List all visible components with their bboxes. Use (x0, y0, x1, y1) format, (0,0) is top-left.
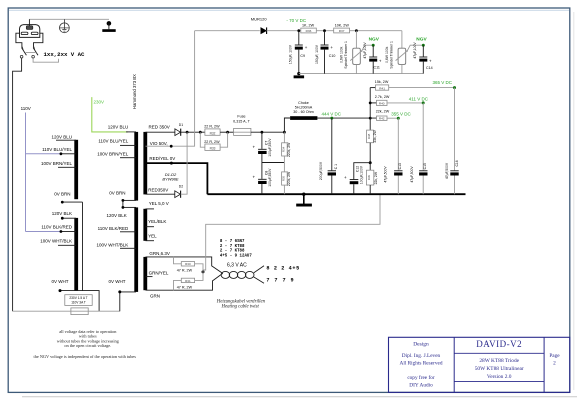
node NGV2 (422, 44, 425, 47)
node 355V (397, 117, 400, 120)
svg-text:50W KT88 Ultralinear: 50W KT88 Ultralinear (475, 366, 524, 372)
earth circle symbol (60, 19, 70, 32)
wire: mains live down left side (13, 58, 22, 311)
svg-text:365 V DC: 365 V DC (433, 80, 453, 85)
svg-text:Heizungskabel verdrillen: Heizungskabel verdrillen (216, 299, 266, 304)
svg-text:DAVID-V2: DAVID-V2 (476, 339, 522, 349)
svg-text:Choke: Choke (298, 101, 309, 105)
svg-text:Design: Design (413, 342, 429, 348)
capacitor C7 100uF 350V (253, 132, 273, 162)
svg-text:355 V DC: 355 V DC (391, 111, 411, 116)
svg-text:GRN: GRN (150, 293, 160, 298)
junction node (61, 217, 64, 220)
svg-text:C 1: C 1 (334, 164, 338, 169)
tap 120V BLU (126, 131, 136, 133)
junction node (297, 29, 300, 32)
diode D2 (175, 185, 183, 198)
choke L1 5H 200mA (290, 101, 317, 120)
svg-text:+: + (330, 45, 333, 50)
svg-text:0V WHT: 0V WHT (51, 279, 68, 284)
svg-text:GRN,6.3V: GRN,6.3V (149, 251, 170, 256)
svg-text:33k, 2W: 33k, 2W (373, 129, 377, 142)
ground symbol on bus (296, 193, 312, 207)
diode D3 MUR120 (251, 17, 301, 34)
svg-text:R42: R42 (379, 117, 385, 121)
switch S1 pole B (32, 47, 38, 59)
junction node (118, 290, 121, 293)
svg-text:Hammond 373 BX: Hammond 373 BX (132, 74, 137, 109)
label pointer bracket (33, 58, 58, 62)
tap 100V BRN/YEL (120, 157, 136, 159)
svg-text:C13: C13 (398, 163, 402, 169)
svg-text:R36: R36 (306, 29, 312, 33)
wire D2 cathode join to D1 (181, 132, 188, 194)
svg-text:R31: R31 (185, 279, 191, 283)
bias section bottom bus (299, 73, 424, 75)
svg-text:RED 350V: RED 350V (149, 124, 170, 129)
wire heater center to ground bus (203, 194, 380, 272)
wire B+ rail (317, 117, 376, 119)
svg-text:120V BLU: 120V BLU (108, 124, 129, 129)
svg-text:22k, 2W: 22k, 2W (376, 110, 390, 114)
tap 0V BRN (62, 201, 82, 203)
tube pin table (220, 240, 252, 258)
junction node (170, 162, 173, 165)
svg-text:VIO 50V,: VIO 50V, (150, 141, 168, 146)
tap 120V BLK (123, 206, 136, 208)
wire C7/C8 midpoint (262, 162, 285, 164)
capacitor C10 150uF 100V (315, 31, 335, 74)
svg-text:copy free for: copy free for (407, 374, 435, 381)
tap 110V BLK/RED (61, 231, 76, 233)
svg-text:230V 1.5 A T: 230V 1.5 A T (69, 296, 87, 300)
svg-text:47µF,100V: 47µF,100V (363, 42, 367, 59)
svg-text:YEL 5,0 V: YEL 5,0 V (149, 201, 169, 206)
svg-text:All Rights Reserved: All Rights Reserved (400, 360, 443, 366)
junction node (355, 29, 358, 32)
svg-text:GRN/YEL: GRN/YEL (149, 270, 169, 275)
svg-text:DIY Audio: DIY Audio (409, 382, 433, 388)
svg-text:1K, 2W: 1K, 2W (302, 23, 315, 27)
resistor R39 22k 2W (366, 163, 378, 195)
wire R32 to fuse (220, 131, 234, 133)
junction node (261, 131, 264, 134)
svg-text:8 2 2 4+5: 8 2 2 4+5 (266, 266, 299, 272)
resistor R35 220k 2W (282, 163, 291, 195)
resistor R37 10K 2W (334, 23, 402, 33)
trimmer P2 100k (385, 31, 423, 74)
junction node (226, 131, 229, 134)
svg-text:230V: 230V (94, 99, 105, 104)
svg-text:47µF,500V: 47µF,500V (445, 162, 449, 179)
junction node (369, 102, 372, 105)
junction node (323, 29, 326, 32)
wire: blue branch to 110V BLU/YEL (26, 153, 61, 155)
svg-text:Spindel Trimmer 1: Spindel Trimmer 1 (389, 41, 393, 69)
junction node (186, 131, 189, 134)
node 411V (422, 101, 425, 104)
bias rail wire to MUR120 (195, 30, 260, 32)
notes text block (34, 329, 137, 359)
svg-text:110V 3A T: 110V 3A T (71, 301, 86, 305)
title block (389, 337, 570, 392)
svg-text:MUR120: MUR120 (251, 17, 268, 22)
svg-text:200µF,500V: 200µF,500V (319, 161, 323, 180)
svg-text:22k, 2W: 22k, 2W (374, 171, 378, 184)
capacitor C8 100uF 350V (253, 163, 273, 195)
svg-text:C16: C16 (455, 160, 459, 166)
svg-text:28W KT88 Triode: 28W KT88 Triode (479, 358, 519, 364)
scan artifact lines (9, 9, 569, 11)
tap 120V BLU (56, 139, 76, 141)
svg-text:100V WHT/BLK: 100V WHT/BLK (97, 243, 129, 248)
svg-text:RED/YEL 0V: RED/YEL 0V (149, 156, 175, 161)
wire: T2 series link (122, 200, 124, 207)
resistor R40 2.7k 2W (370, 95, 423, 106)
svg-text:220k, 2W: 220k, 2W (287, 171, 291, 186)
svg-text:120V BLK: 120V BLK (52, 211, 72, 216)
tap 0V BRN (123, 199, 136, 201)
svg-text:120V BLK: 120V BLK (107, 213, 127, 218)
svg-text:47µF,100V: 47µF,100V (413, 42, 417, 59)
capacitor C13 47uF 500V (384, 118, 403, 194)
svg-text:Spindel Trimmer 1: Spindel Trimmer 1 (344, 41, 348, 69)
wire RED350V to D2 (146, 193, 175, 195)
tap 120V BLK (62, 217, 76, 219)
heater twisted pair (221, 263, 264, 284)
junction node (61, 201, 64, 204)
resistor R38 33k 2W (367, 118, 377, 163)
tap 110V BLK/RED (120, 231, 136, 233)
wire D1 cathode to R32 (181, 131, 205, 133)
svg-text:R32: R32 (210, 131, 216, 135)
svg-text:0V BRN: 0V BRN (54, 192, 70, 197)
ground bus (207, 193, 465, 195)
wire RED/YEL 0V center tap to ground bus (146, 163, 208, 194)
svg-text:RED350V: RED350V (148, 187, 168, 192)
svg-text:0V WHT: 0V WHT (108, 279, 125, 284)
svg-text:150µF, 100V: 150µF, 100V (315, 44, 319, 64)
transformer T2 secondary bar 5V (143, 209, 147, 241)
svg-text:on the open circuit voltage.: on the open circuit voltage. (64, 343, 111, 348)
svg-text:C10: C10 (329, 54, 336, 58)
node NGV1 (372, 44, 375, 47)
junction node heater center (202, 270, 205, 273)
svg-text:150µF, 100V: 150µF, 100V (289, 44, 293, 64)
svg-text:D2: D2 (179, 185, 183, 189)
svg-text:22 R, 2W: 22 R, 2W (204, 124, 220, 128)
diode D1 (175, 123, 183, 136)
resistor R36 1K 2W (301, 23, 334, 33)
svg-text:+: + (379, 58, 382, 63)
svg-text:NGV: NGV (416, 36, 427, 42)
svg-text:7 7 7 9: 7 7 7 9 (266, 278, 294, 284)
junction node (122, 199, 125, 202)
node 444V (330, 117, 333, 120)
svg-text:100µF,350V: 100µF,350V (268, 168, 272, 187)
svg-text:+: + (344, 175, 347, 180)
tap 100V BRN/YEL (58, 166, 76, 168)
svg-text:R35: R35 (282, 175, 286, 181)
resistor R30 47R 2W (174, 257, 204, 273)
svg-text:47µF,500V: 47µF,500V (384, 166, 388, 183)
svg-text:C14: C14 (426, 66, 433, 70)
junction node (59, 289, 62, 292)
junction node (170, 145, 173, 148)
fuse F1 mains (13, 308, 120, 315)
tap YEL (146, 240, 155, 242)
wire: 230V select (green) (92, 97, 128, 132)
wire GRN 6.3V to twist (146, 257, 223, 274)
junction node (60, 152, 63, 155)
wire B+ riser to choke (284, 118, 290, 132)
wire rail risers (369, 88, 371, 119)
svg-text:120V BLU: 120V BLU (51, 134, 72, 139)
junction node (122, 206, 125, 209)
svg-text:R40: R40 (379, 102, 385, 106)
svg-text:R33: R33 (210, 146, 216, 150)
svg-text:D1: D1 (179, 123, 183, 127)
svg-text:47 R, 2W: 47 R, 2W (177, 285, 193, 289)
svg-text:R37: R37 (339, 29, 345, 33)
svg-text:4+5 - 9 12AU7: 4+5 - 9 12AU7 (220, 254, 252, 258)
capacitor C12 100uF 100V (344, 163, 370, 195)
switch S1 pole A (20, 47, 26, 59)
junction node (199, 131, 202, 134)
tap 110V BLU/YEL (61, 153, 76, 155)
node 365V (453, 86, 456, 89)
svg-text:100µF,350V: 100µF,350V (268, 138, 272, 157)
capacitor C11 47uF 100V (363, 42, 382, 74)
transformer T2 secondary bar HV (143, 132, 147, 195)
svg-text:BYW96E: BYW96E (162, 177, 179, 182)
svg-text:30 - 60 Ohm: 30 - 60 Ohm (293, 110, 314, 114)
svg-text:C11: C11 (374, 65, 380, 69)
svg-text:R34: R34 (282, 146, 286, 152)
svg-text:C9: C9 (300, 54, 305, 58)
resistor R31 47R 2W (174, 272, 204, 290)
svg-text:110V BLU/YEL: 110V BLU/YEL (42, 147, 72, 152)
resistor R32 22R 2W (204, 124, 220, 135)
svg-text:R41: R41 (379, 86, 385, 90)
wire RED 350V to D1 (146, 131, 175, 133)
capacitor C9 150uF 100V (289, 31, 308, 74)
svg-text:47µF,500V: 47µF,500V (410, 166, 414, 183)
tap 100V WHT/BLK (58, 244, 76, 246)
svg-text:2: 2 (553, 360, 556, 366)
trimmer P1 100k (340, 31, 374, 74)
capacitor C16 47uF 500V (445, 88, 459, 195)
fuse F2 0.315A HV (233, 115, 251, 136)
svg-text:Heating cable twist: Heating cable twist (221, 305, 260, 310)
svg-text:0,315 A, T: 0,315 A, T (233, 120, 250, 124)
switch coupling link (26, 52, 37, 54)
capacitor C14 47uF 100V (413, 42, 432, 74)
svg-text:Fuse: Fuse (237, 115, 245, 119)
svg-text:100µF,100V: 100µF,100V (360, 165, 364, 184)
svg-text:110V BLU/YEL: 110V BLU/YEL (98, 139, 128, 144)
junction node (283, 131, 286, 134)
ground symbol bias (294, 72, 305, 78)
svg-text:YEL: YEL (148, 233, 157, 238)
tap 0V WHT (120, 292, 136, 311)
svg-text:10K, 2W: 10K, 2W (335, 23, 350, 27)
junction node (369, 117, 372, 120)
tap YEL/BLK (146, 226, 155, 228)
svg-text:110V BLK/RED: 110V BLK/RED (98, 226, 129, 231)
svg-text:220k, 2W: 220k, 2W (287, 142, 291, 157)
capacitor C15 47uF 500V (410, 103, 428, 194)
tap 0V WHT to fuse (60, 291, 99, 312)
wire fuse to B+ riser (251, 131, 285, 133)
resistor R34 220k 2W (282, 132, 291, 162)
svg-text:110V: 110V (21, 106, 31, 111)
svg-text:100V BRN/YEL: 100V BRN/YEL (41, 161, 73, 166)
svg-text:22 R, 2W: 22 R, 2W (204, 140, 220, 144)
svg-text:0V BRN: 0V BRN (109, 191, 125, 196)
mains inlet connector (IEC plug) (16, 19, 43, 48)
svg-text:47 R, 2W: 47 R, 2W (177, 268, 193, 272)
wire: blue branch to 110V BLK/RED (26, 231, 61, 233)
svg-text:444 V DC: 444 V DC (322, 111, 342, 116)
wire VIO 50V to bias riser (146, 31, 195, 147)
wire: top mains rail (29, 18, 109, 20)
tap YEL 5V (146, 208, 155, 210)
transformer T2 primary winding bar lower (134, 207, 138, 292)
svg-text:NGV: NGV (369, 36, 380, 42)
junction node (369, 161, 372, 164)
svg-text:+: + (253, 175, 256, 180)
transformer T1 primary winding bar upper (74, 140, 78, 199)
capacitor C1 200uF 500V (319, 118, 338, 194)
wire: T1 parallel link 0V BRN to 0V WHT (82, 202, 84, 291)
resistor R41 15k 2W (370, 80, 454, 90)
svg-text:+: + (253, 145, 256, 150)
junction node (60, 230, 63, 233)
svg-text:Version 2.0: Version 2.0 (487, 374, 512, 380)
svg-text:R30: R30 (185, 262, 191, 266)
svg-text:Page: Page (549, 353, 560, 359)
wire GRN to twist (146, 273, 223, 290)
svg-text:2 - 7 KT88: 2 - 7 KT88 (220, 245, 245, 249)
svg-text:2 - 7 KT88: 2 - 7 KT88 (220, 250, 245, 254)
svg-text:8 - 7 6SN7: 8 - 7 6SN7 (220, 240, 245, 244)
svg-text:100V BRN/YEL: 100V BRN/YEL (97, 151, 129, 156)
svg-text:6,3 V AC: 6,3 V AC (227, 263, 247, 269)
svg-text:C15: C15 (423, 163, 427, 169)
ground: protective earth to chassis (102, 21, 115, 32)
transformer T1 primary winding bar lower (74, 218, 78, 291)
svg-text:411 V DC: 411 V DC (409, 97, 429, 102)
transformer T2 primary winding bar upper (134, 132, 138, 201)
tap GRN/YEL (146, 276, 153, 278)
wire: 110V select (blue) (25, 113, 27, 232)
tap 110V BLU/YEL (120, 144, 136, 146)
svg-text:15k, 2W: 15k, 2W (375, 80, 389, 84)
svg-text:the NGV voltage is independent: the NGV voltage is independent of the op… (34, 354, 137, 359)
tap 100V WHT/BLK (120, 247, 136, 249)
resistor R33 22R 2W parallel (200, 132, 227, 150)
svg-text:100V WHT/BLK: 100V WHT/BLK (40, 238, 72, 243)
svg-text:Dipl. Ing. J.Leven: Dipl. Ing. J.Leven (402, 353, 441, 359)
svg-text:R38: R38 (367, 133, 371, 139)
svg-text:+: + (305, 45, 308, 50)
resistor R42 22k 2W (376, 110, 399, 121)
fuse rating label box (65, 295, 92, 306)
svg-text:1xx,2xx V AC: 1xx,2xx V AC (44, 51, 86, 58)
svg-text:2.7k, 2W: 2.7k, 2W (375, 95, 390, 99)
svg-text:+: + (429, 58, 432, 63)
svg-text:110V BLK/RED: 110V BLK/RED (41, 224, 72, 229)
transformer T2 secondary bar 6.3V (143, 257, 147, 290)
svg-text:R39: R39 (367, 175, 371, 181)
svg-text:YEL/BLK: YEL/BLK (148, 219, 166, 224)
svg-text:5H,200mA: 5H,200mA (295, 106, 313, 110)
